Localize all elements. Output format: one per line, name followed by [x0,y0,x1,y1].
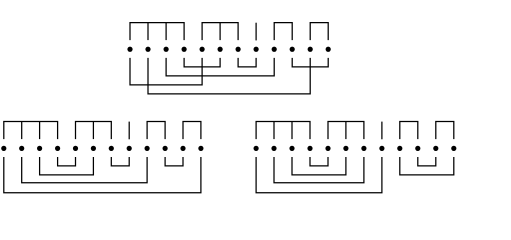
A node 9 [272,47,277,52]
C below arc {2,7} [274,157,364,183]
B node 3 [37,146,42,151]
A above block {5,6,7} [202,23,238,40]
A node 8 [254,47,259,52]
B above block {1,2,3,4} leg 3 [39,122,41,140]
B below arc {7,8} [111,157,129,166]
B above block {1,2,3,4} leg 2 [21,122,23,140]
C node 8 [379,146,384,151]
B below arc {10,11} [165,157,183,166]
B below arc {1,12} [4,157,201,193]
C above block {1,2,3,4} leg 3 [291,122,293,140]
A node 4 [182,47,187,52]
C above block {5,6,7} [328,122,364,140]
A node 5 [200,47,205,52]
A node 11 [308,47,313,52]
B node 5 [73,146,78,151]
B node 6 [91,146,96,151]
B below arc {4,5} [58,157,76,166]
A node 1 [127,47,132,52]
A below arc {4,6} [184,58,220,67]
C below arc {4,5} [310,157,328,166]
B node 9 [145,146,150,151]
A below arc {3,9} [166,58,274,76]
A below arc {10,12} [292,58,328,67]
C above block {11,12} [436,122,454,140]
A node 6 [218,47,223,52]
B above block {1,2,3,4} [4,122,58,140]
diagram C (bottom right): 12-node strand diagram [254,122,457,193]
C node 6 [343,146,348,151]
A above block {1,2,3,4} leg 3 [165,23,167,40]
B node 8 [127,146,132,151]
B node 10 [163,146,168,151]
A above block {11,12} [310,23,328,40]
A node 3 [164,47,169,52]
B node 4 [55,146,60,151]
C node 12 [451,146,456,151]
B node 1 [1,146,6,151]
C above block {5,6,7} leg 6 [345,122,347,140]
B node 2 [19,146,24,151]
diagram A (top): 12-node strand diagram [127,23,330,94]
C node 2 [271,146,276,151]
A below arc {2,11} [148,58,310,94]
A above block {1,2,3,4} [130,23,184,40]
A node 7 [236,47,241,52]
A below arc {7,8} [238,58,256,67]
B below arc {2,9} [22,157,147,183]
diagram B (bottom left): 12-node strand diagram [1,122,203,193]
B below arc {3,6} [40,157,94,175]
C above block {9,10} [400,122,418,140]
C node 5 [325,146,330,151]
B node 11 [180,146,185,151]
C node 10 [415,146,420,151]
B node 12 [198,146,203,151]
C node 7 [361,146,366,151]
C node 9 [397,146,402,151]
C above stub at node 8 [381,122,383,140]
C below arc {9,12} [400,157,454,175]
A above block {5,6,7} leg 6 [219,23,221,40]
B node 7 [109,146,114,151]
C node 1 [254,146,259,151]
B above block {9,10} [147,122,165,140]
A above stub at node 8 [255,23,257,41]
B above stub at node 8 [128,122,130,140]
C node 11 [433,146,438,151]
C above block {1,2,3,4} [256,122,310,140]
C node 3 [289,146,294,151]
C below arc {3,6} [292,157,346,175]
C below arc {10,11} [418,157,436,166]
C node 4 [307,146,312,151]
A above block {1,2,3,4} leg 2 [147,23,149,40]
A node 2 [145,47,150,52]
A below arc {1,5} [130,58,202,85]
B above block {11,12} [183,122,201,140]
B above block {5,6,7} leg 6 [92,122,94,140]
A node 10 [290,47,295,52]
A above block {9,10} [274,23,292,40]
C above block {1,2,3,4} leg 2 [273,122,275,140]
A node 12 [326,47,331,52]
C below arc {1,8} [256,157,382,193]
B above block {5,6,7} [76,122,112,140]
